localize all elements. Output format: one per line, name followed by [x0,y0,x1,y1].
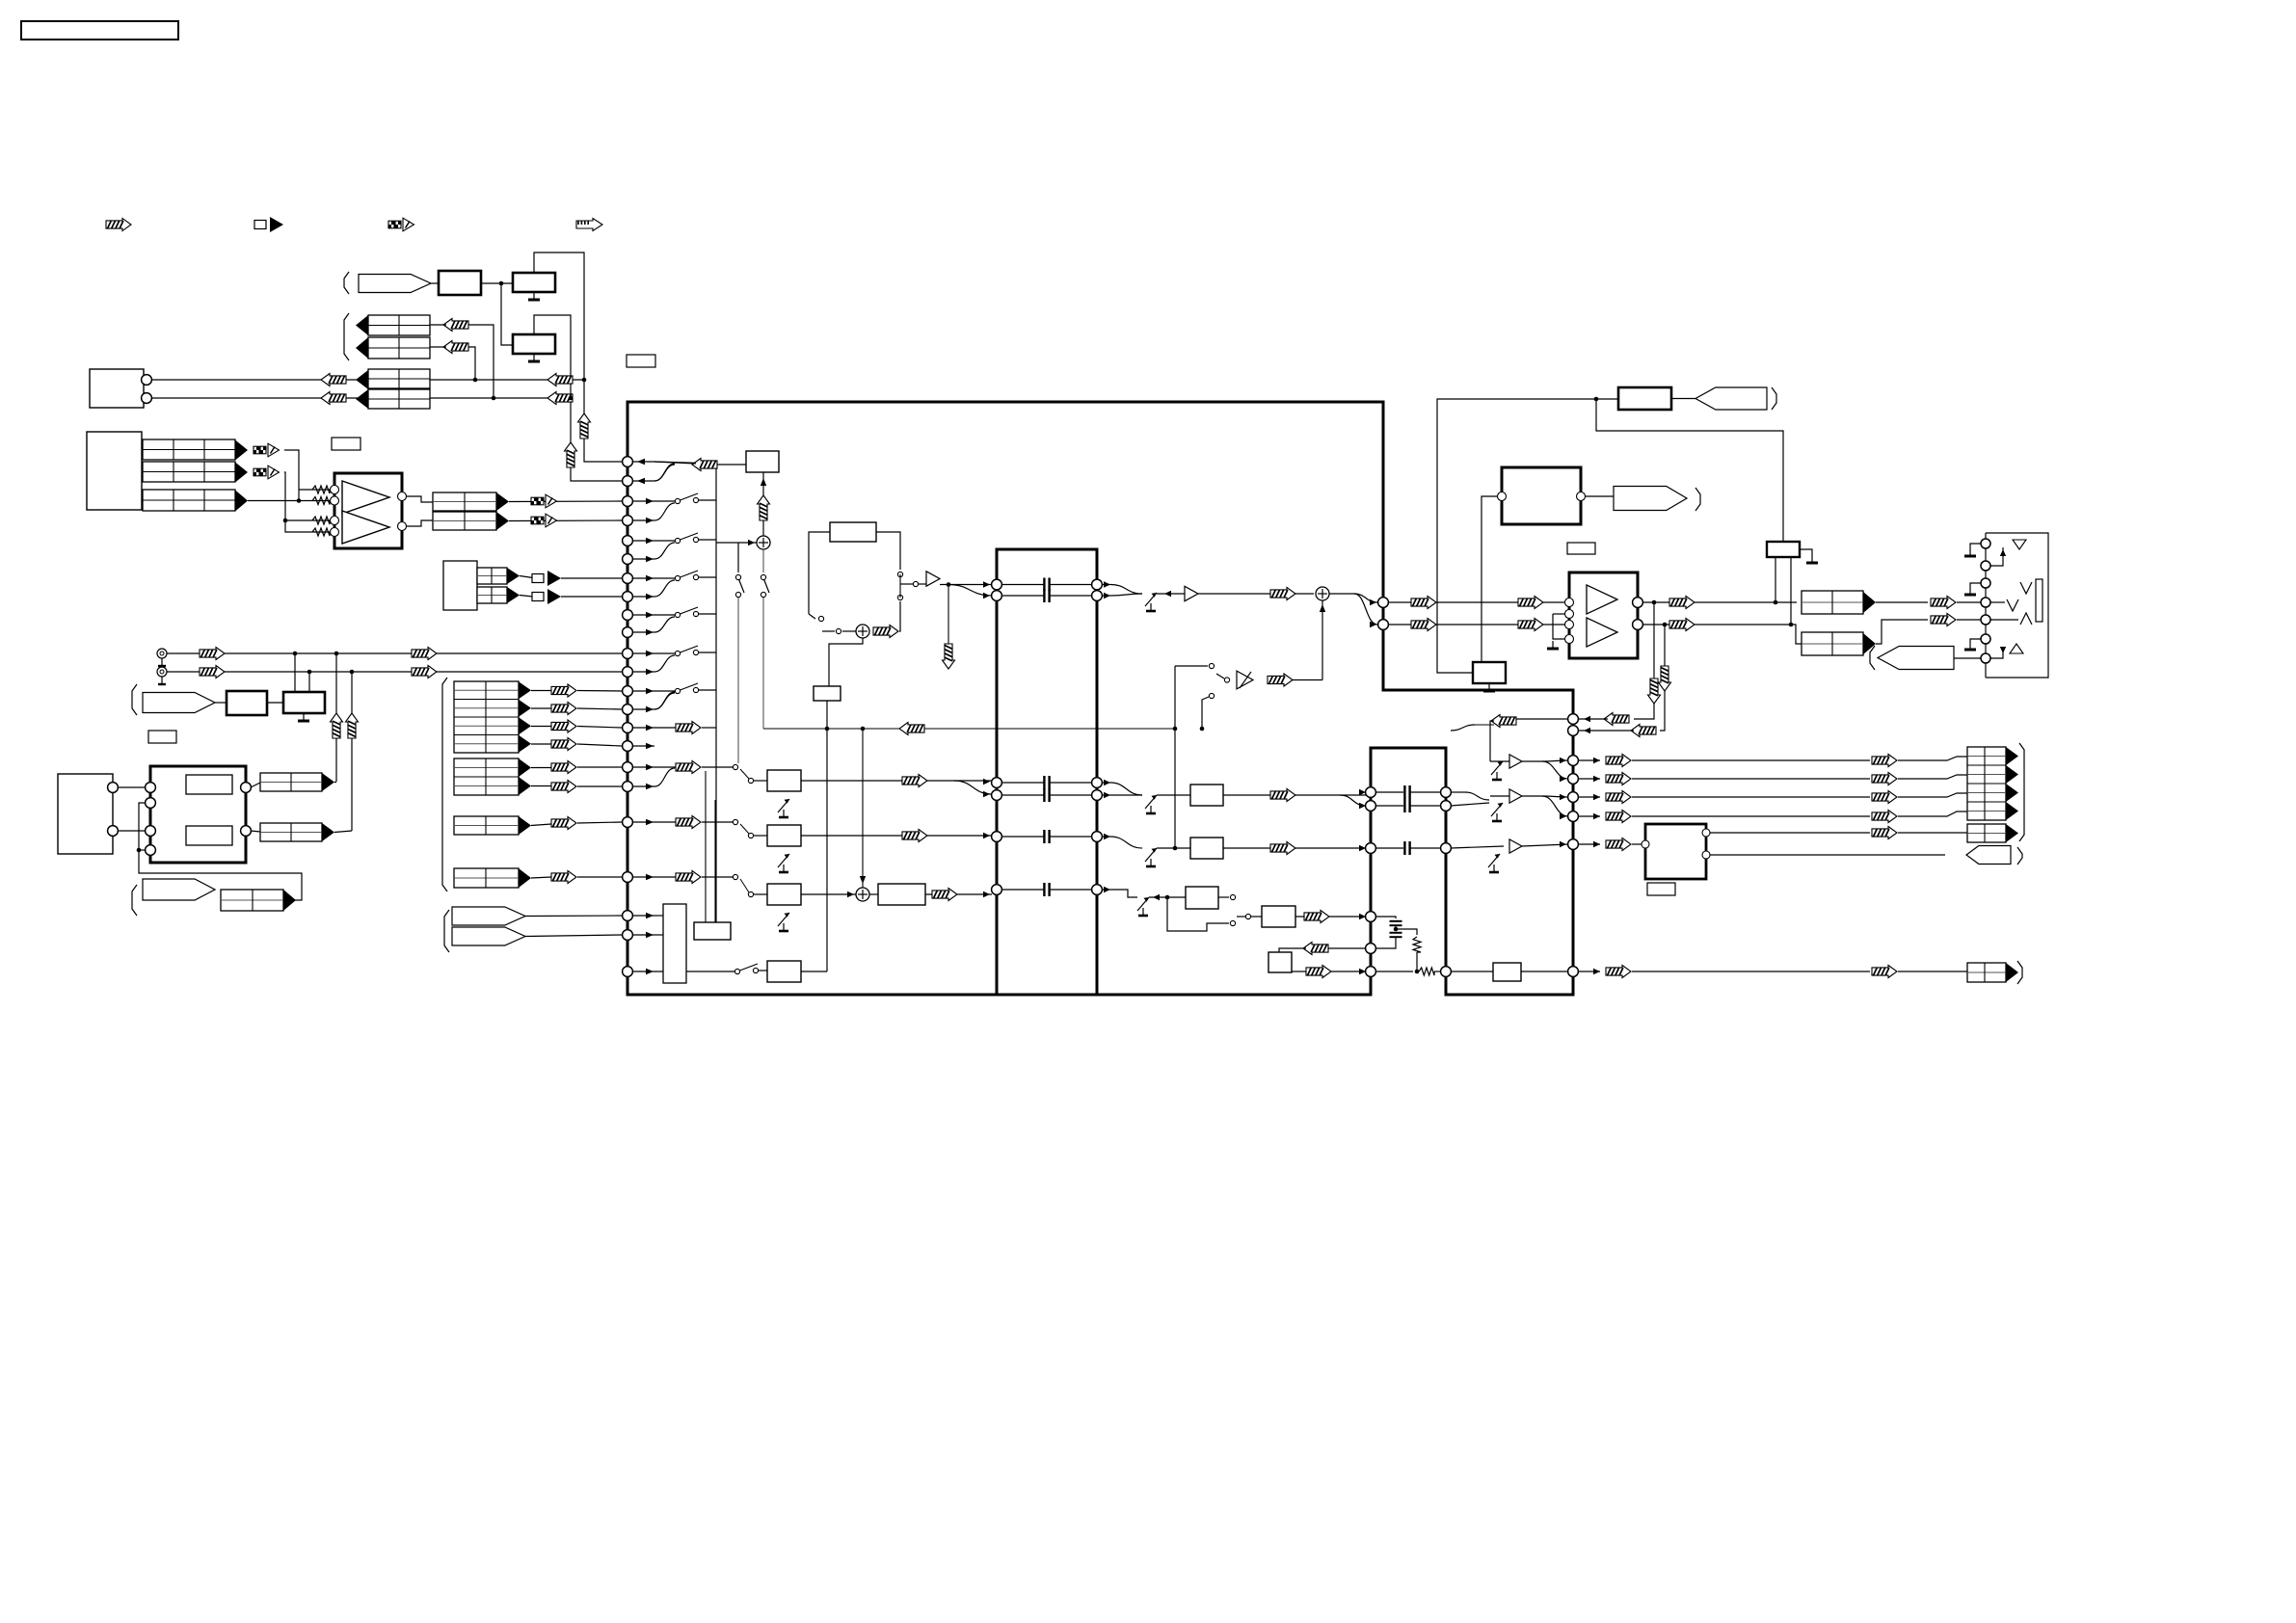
hatched arrow [692,459,717,471]
arrow [637,478,645,484]
wire [1434,971,1441,972]
triangle [356,370,368,389]
switch [675,498,680,503]
down arrow [943,644,955,669]
pin [146,783,156,793]
pin [398,492,407,501]
wire curve [1465,792,1489,800]
left arrow [1631,725,1656,737]
box M5 [767,961,801,982]
pin [1498,492,1507,501]
wire [754,835,767,837]
wire [1437,399,1618,673]
bracket [442,678,447,891]
pin [1568,726,1579,736]
wire [1522,844,1568,846]
plug J2 [143,693,215,713]
ground [533,292,535,300]
wire [1167,897,1229,931]
wire [534,253,622,462]
wire [1793,625,1802,644]
hatched arrow [1270,842,1295,855]
ground [1969,645,1971,650]
wire [1596,399,1783,542]
wire [801,780,992,782]
contact [1230,894,1235,899]
pin [623,911,633,921]
arrow [748,540,755,545]
box FL1 [746,451,779,472]
wire curve [1110,594,1142,596]
resistor [1413,937,1421,952]
capacitor C5 [1043,830,1045,843]
wire curve [1451,725,1475,731]
hatched arrow [1270,588,1295,600]
wire [1388,601,1411,603]
jack wire [1990,652,2003,658]
wire [1790,557,1792,625]
wire [1553,613,1565,615]
arrow [1359,969,1366,974]
pot [1145,848,1157,862]
striped arrow [551,871,576,884]
arrow [1104,834,1110,839]
wire curve [1542,796,1568,816]
wire [468,325,494,398]
wire curve [1354,594,1377,625]
wire [740,879,749,892]
wire [1396,929,1417,935]
wire [1632,971,1870,972]
resistor [312,517,330,524]
pin [623,592,633,602]
box M8 [1186,887,1218,909]
inner box [186,775,232,794]
arrow [983,779,990,785]
wire [654,971,734,972]
inner arrow [676,871,701,884]
wire [1375,805,1403,807]
wire [468,347,475,380]
IC201 DSP block outline [627,402,1573,995]
box CN101 [90,369,144,408]
contact [733,874,737,879]
triangle [322,823,334,841]
node [582,378,587,383]
wire [534,315,622,481]
wire [335,653,337,782]
box M10 [1268,952,1292,972]
wire [1237,916,1245,918]
pin [241,783,252,793]
pin [1642,840,1649,848]
wire [284,472,334,532]
buffer [926,572,940,586]
wire [829,638,863,686]
hatched arrow [1606,811,1631,823]
box M7 [1190,838,1223,859]
pin [992,832,1002,842]
wire [1632,778,1870,780]
wire [531,785,551,787]
striped arrow [551,703,576,715]
node [1789,623,1794,627]
wire [940,584,992,586]
wire [1898,775,1967,779]
wire [754,780,767,782]
capacitor C7 [1403,785,1405,799]
wire [1295,916,1366,918]
arrow [646,725,654,731]
arrow [1104,887,1110,892]
legend striped arrow [106,219,131,231]
arrow [646,651,654,656]
title box [21,21,178,40]
wire [334,782,336,784]
arrow [860,876,866,884]
contact [1224,678,1229,682]
pin [146,845,156,856]
pin [1568,839,1579,850]
arrow [646,498,654,504]
loop box EQ1 [830,522,876,542]
arrow [761,478,766,486]
pin [623,762,633,773]
pot [1137,897,1149,911]
left arrow [547,374,573,386]
pin [1568,774,1579,785]
pin [623,516,633,526]
wire [1475,724,1494,726]
wire [762,598,764,729]
node [1173,846,1178,851]
box AB2 [814,686,841,701]
wire [284,450,299,501]
arrow [1320,604,1325,612]
pin [623,741,633,752]
wire [308,672,310,692]
pin [1366,801,1376,811]
node [1594,397,1599,402]
table [477,568,507,584]
wire [294,653,296,692]
node [137,848,142,853]
arrow+wire [1578,971,1600,972]
wire [1957,601,1981,603]
resistor [312,486,330,493]
arrow [646,518,654,523]
wire [1800,549,1812,557]
wire curve [654,465,675,481]
bracket [132,885,137,916]
arrow [646,629,654,635]
wire [1990,619,2018,621]
buffer2 [1509,755,1522,768]
plug out [1966,846,2011,865]
jack wire [1990,547,2003,566]
node [1200,727,1205,732]
wire [737,543,739,572]
pot [778,854,789,867]
wire line [167,671,622,673]
pin [331,486,339,494]
wire [1898,793,1967,797]
node [1663,623,1668,627]
wire [1451,791,1465,793]
wire [1202,697,1209,729]
wire [561,596,622,598]
wire curve [1490,760,1509,762]
bracket [1695,488,1700,511]
wire [531,690,551,692]
node [1652,600,1657,605]
arrow [646,538,654,544]
wire [531,726,551,728]
pin [1565,610,1574,619]
buffer [1509,789,1522,803]
triangle [519,777,531,795]
arrow [1584,716,1590,722]
node [1173,727,1178,732]
box M1 [767,770,801,791]
box X104 [283,692,325,713]
pin [623,967,633,977]
pin [623,496,633,507]
arrow [1560,758,1566,763]
box IC101 [439,271,481,295]
plug J3 [143,879,215,900]
connector 1row [454,816,519,835]
hatched arrow [1931,614,1956,626]
connector 2rows [454,758,519,795]
wire [1001,595,1044,597]
pin [1366,843,1376,854]
opamp B [342,511,389,544]
wire line1 [1388,601,1566,603]
node [861,727,866,732]
hatched arrow [1872,966,1897,978]
pin [1981,561,1990,571]
wire [1632,843,1645,845]
wire [1671,398,1695,400]
wire line2 [151,397,571,399]
triangle [519,681,531,699]
pin [623,610,633,621]
wire [1001,584,1044,586]
wire curve [954,781,992,794]
node [334,652,339,656]
up arrow [346,713,359,738]
wire [251,831,260,832]
wire [577,766,622,768]
wire [1110,890,1137,897]
legend solid arrow symbol [254,221,266,229]
table [260,823,322,841]
wire [654,462,716,464]
hatched arrow [1304,911,1329,923]
arrow [646,594,654,599]
bracket [2019,743,2024,841]
triangle [2006,747,2018,765]
pin [623,930,633,941]
hatched arrow [1606,755,1631,767]
wire [948,585,949,658]
triangle [519,700,531,717]
pin [1633,620,1643,630]
jack wire [1970,583,1981,590]
wire [118,830,146,832]
box M3 [767,884,801,905]
wire [654,821,676,823]
wire [717,464,746,466]
resistor [312,497,330,505]
arrow [1164,591,1171,597]
hatched arrow [1872,773,1897,785]
flat box [694,922,731,940]
box X302 [1473,662,1506,683]
plug J6 [1695,387,1767,410]
hatched arrow [1669,619,1695,631]
buffer [1509,839,1522,853]
wire curve [948,585,992,597]
pin [1565,599,1574,607]
pin [623,573,633,584]
wire y756 [763,728,1174,730]
wire [1198,593,1314,595]
wire [714,800,716,922]
pot [778,913,789,926]
pin [146,826,156,837]
hatched arrow [1268,674,1293,686]
wire curve [1354,594,1377,602]
wire [1395,926,1397,931]
wire [139,849,146,851]
arrow [646,612,654,618]
triangle [519,868,531,888]
pin [1981,539,1990,548]
arrow+wire [1578,796,1600,798]
arrow [983,891,990,897]
wire [809,614,815,619]
label box [332,438,360,450]
arrow [2000,647,2006,653]
rca jack [157,649,167,658]
wire [1279,948,1306,952]
node [473,378,478,383]
wire [1898,971,1967,972]
wire [1292,971,1366,972]
triangle [235,463,248,483]
pin [331,496,339,505]
bracket [344,313,349,360]
pin [108,783,119,793]
switch [675,651,680,655]
jack sleeve [2036,579,2042,622]
capacitor C3 [1043,776,1045,789]
checkered arrow [254,446,259,454]
wire [862,729,864,888]
capacitor C8 [1403,799,1405,812]
triangle [519,717,531,734]
pot [1145,795,1157,809]
table [477,587,507,603]
pot [778,799,789,812]
pin [623,686,633,697]
arrow [646,874,654,880]
wire line2 [1388,624,1566,625]
table [221,890,283,911]
node [293,652,298,656]
wire curve [654,503,675,520]
checkered arrow [531,497,537,505]
pin [1366,944,1376,954]
wire [740,769,749,779]
wire [1522,795,1542,797]
contact [1209,663,1214,668]
wire [758,970,767,971]
arrow [646,913,654,918]
wire curve [1110,837,1142,848]
pot [1145,593,1157,606]
arrow [1104,780,1110,785]
wire [801,893,856,895]
wire [801,835,992,837]
arrow [2000,549,2006,556]
ground [1811,557,1813,563]
box B5 [1493,963,1521,981]
triangle [507,568,520,584]
ground [1552,641,1554,649]
wire [531,824,551,826]
pin [241,826,252,837]
node [283,519,288,523]
wire [705,771,707,922]
wire [654,727,676,729]
wire [1660,625,1665,731]
hatched arrow [899,723,924,735]
wire [1876,601,1928,603]
pin [1981,615,1990,625]
pin [1702,829,1710,837]
connector table [368,369,430,388]
pin [1568,756,1579,766]
ground [1488,683,1490,691]
rca jack [157,667,167,677]
triangle [2006,765,2018,784]
wire [520,596,533,598]
pin [1568,792,1579,803]
node [1165,895,1170,900]
triangle [507,587,520,603]
arrow [1560,794,1566,800]
wire [925,893,992,895]
wire [431,282,439,284]
striped arrow [200,666,225,678]
wire [1522,760,1542,762]
plug J1 [359,275,431,293]
node [492,396,496,401]
wire [1490,721,1494,761]
jack contact V [2007,599,2018,611]
triangle [2006,784,2018,802]
wire x1219 [1174,666,1176,848]
triangle [519,758,531,777]
wire [577,690,622,693]
wire [822,630,835,632]
wire [1634,602,1654,719]
wire [900,583,913,585]
down arrow [1659,666,1671,691]
